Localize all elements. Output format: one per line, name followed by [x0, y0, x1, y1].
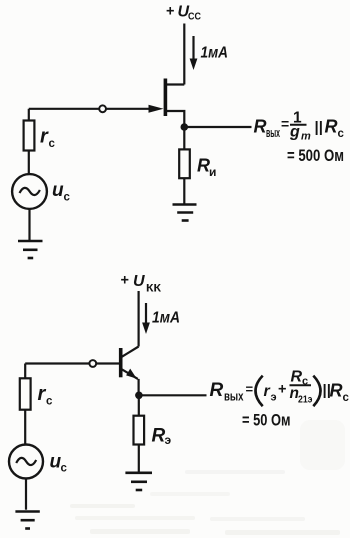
label uc (bottom)	[50, 452, 68, 475]
node: open circle on gate wire	[99, 105, 106, 112]
svg-text:и: и	[209, 165, 216, 179]
label = 50 Ом	[242, 412, 291, 430]
svg-text:с: с	[61, 462, 68, 474]
ground (top circuit, under uc)	[18, 241, 43, 258]
label = 500 Ом	[287, 147, 344, 165]
node: open circle on base wire	[89, 360, 96, 367]
svg-text:с: с	[338, 128, 345, 140]
resistor Rи	[179, 149, 190, 178]
current arrow 1mA (top)	[190, 36, 228, 70]
svg-text:||: ||	[315, 119, 323, 136]
wire source to ground	[28, 209, 30, 241]
supply label +Uкк	[121, 272, 162, 294]
source uc (top circuit): circle with sine	[12, 174, 47, 209]
svg-text:U: U	[133, 273, 145, 290]
svg-text:R: R	[254, 116, 267, 136]
node junction dot (emitter node)	[135, 392, 143, 400]
svg-text:R: R	[325, 116, 338, 136]
svg-text:э: э	[165, 433, 172, 447]
resistor Rэ	[134, 416, 145, 445]
label uc (top)	[52, 180, 71, 203]
ground (top circuit, under Rи)	[173, 205, 197, 221]
svg-text:R: R	[330, 381, 343, 401]
wire output	[184, 126, 251, 128]
wire supply vertical (drain lead)	[183, 24, 185, 85]
resistor rc (top circuit)	[24, 121, 35, 151]
emitter slant with arrow	[122, 369, 138, 379]
svg-text:=: =	[246, 382, 254, 397]
svg-text:вых: вых	[224, 389, 244, 404]
svg-text:вых: вых	[266, 126, 280, 140]
svg-text:m: m	[301, 131, 311, 143]
svg-text:1мА: 1мА	[152, 309, 180, 326]
svg-text:с: с	[49, 138, 56, 150]
wire emitter vertical	[138, 379, 140, 395]
label rc (bottom)	[38, 383, 54, 408]
svg-text:=: =	[281, 116, 289, 132]
faint scan smudges bottom	[70, 420, 345, 535]
svg-text:1мА: 1мА	[201, 44, 229, 61]
wire rc to source	[28, 151, 30, 175]
collector slant	[122, 347, 139, 357]
svg-text:= 50 Ом: = 50 Ом	[242, 412, 291, 430]
svg-text:+: +	[166, 4, 174, 20]
wire resistor to ground	[183, 178, 185, 204]
wire resistor to ground (bottom)	[138, 445, 140, 473]
svg-text:R: R	[210, 380, 224, 401]
wire source to ground (bottom)	[25, 479, 27, 510]
transistor Q1: base bar	[119, 348, 123, 377]
svg-text:с: с	[64, 191, 71, 203]
supply label +Ucc	[166, 4, 201, 23]
label Rи	[197, 155, 216, 179]
wire supply vertical (collector lead)	[138, 291, 140, 347]
svg-text:с: с	[343, 392, 350, 404]
label Rout formula (top): Rвых = 1/gm || Rc	[254, 109, 345, 142]
wire node to resistor	[183, 127, 185, 149]
wire gate (input) with arrowhead	[29, 105, 164, 113]
wire node to resistor (bottom)	[138, 395, 140, 415]
svg-text:КК: КК	[146, 282, 161, 294]
svg-text:+: +	[121, 272, 129, 288]
svg-text:= 500 Ом: = 500 Ом	[287, 147, 344, 165]
wire drain horizontal	[164, 83, 184, 85]
svg-text:r: r	[264, 383, 271, 400]
svg-text:+: +	[278, 382, 286, 398]
wire output (bottom)	[139, 394, 207, 396]
resistor rc (bottom circuit)	[20, 378, 31, 409]
label Rout formula (bottom): Rвых = (rэ + Rc/n21э) || Rc	[210, 369, 350, 407]
transistor U1: JFET channel bar	[164, 79, 168, 117]
svg-text:u: u	[52, 180, 64, 201]
node junction dot (source node)	[181, 123, 189, 131]
svg-text:21э: 21э	[298, 394, 313, 406]
ground (bottom circuit, under Rэ)	[125, 473, 152, 490]
wire base (input)	[25, 362, 119, 364]
current arrow 1mA (bottom)	[142, 303, 180, 334]
svg-text:CC: CC	[188, 11, 201, 23]
source uc (bottom circuit): circle with sine	[9, 445, 43, 479]
svg-text:э: э	[271, 392, 277, 404]
ground (bottom circuit, under uc)	[15, 512, 39, 529]
wire input corner (bottom left branch)	[24, 364, 26, 379]
wire rc to source (bottom)	[24, 410, 26, 445]
label rc (top)	[40, 126, 56, 151]
svg-text:с: с	[46, 396, 53, 408]
wire source lead	[167, 111, 184, 127]
svg-text:R: R	[291, 369, 303, 386]
svg-text:g: g	[289, 124, 300, 141]
label Rэ	[152, 425, 172, 446]
wire input corner (left branch top)	[28, 109, 30, 121]
svg-text:R: R	[152, 425, 166, 446]
